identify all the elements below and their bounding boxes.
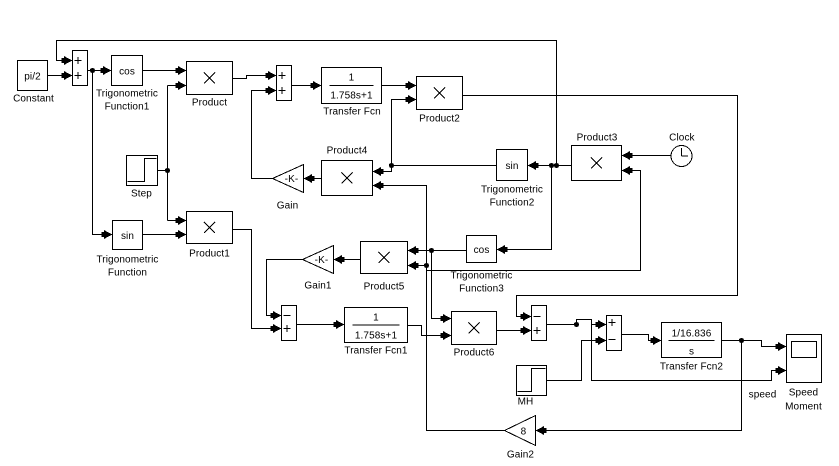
svg-text:Speed: Speed bbox=[789, 388, 818, 399]
svg-text:1: 1 bbox=[349, 73, 355, 84]
svg-text:Function2: Function2 bbox=[490, 198, 535, 209]
svg-text:Trigonometric: Trigonometric bbox=[96, 255, 158, 266]
svg-text:1: 1 bbox=[373, 313, 379, 324]
svg-text:Gain1: Gain1 bbox=[304, 281, 332, 292]
svg-text:cos: cos bbox=[119, 67, 135, 78]
svg-text:s: s bbox=[689, 347, 694, 358]
svg-text:Function1: Function1 bbox=[105, 102, 150, 113]
svg-text:Transfer Fcn2: Transfer Fcn2 bbox=[660, 362, 724, 373]
svg-text:Product3: Product3 bbox=[577, 133, 618, 144]
svg-text:Product: Product bbox=[192, 98, 227, 109]
svg-text:1.758s+1: 1.758s+1 bbox=[330, 91, 373, 102]
svg-text:Product4: Product4 bbox=[327, 146, 368, 157]
svg-text:Gain2: Gain2 bbox=[507, 450, 535, 461]
svg-text:Function: Function bbox=[108, 268, 147, 279]
svg-text:Product6: Product6 bbox=[454, 348, 495, 359]
svg-text:Function3: Function3 bbox=[459, 284, 504, 295]
svg-text:Constant: Constant bbox=[13, 94, 54, 105]
svg-text:Trigonometric: Trigonometric bbox=[481, 185, 543, 196]
svg-text:Gain: Gain bbox=[277, 201, 299, 212]
svg-text:pi/2: pi/2 bbox=[24, 72, 41, 83]
svg-text:sin: sin bbox=[505, 161, 518, 172]
svg-text:Step: Step bbox=[131, 189, 152, 200]
svg-text:Transfer Fcn1: Transfer Fcn1 bbox=[344, 346, 408, 357]
svg-text:cos: cos bbox=[474, 245, 490, 256]
svg-text:-K-: -K- bbox=[285, 174, 299, 185]
svg-text:Transfer Fcn: Transfer Fcn bbox=[323, 107, 381, 118]
svg-text:speed: speed bbox=[749, 390, 777, 401]
svg-text:8: 8 bbox=[521, 427, 527, 438]
svg-text:Product5: Product5 bbox=[364, 282, 405, 293]
svg-text:sin: sin bbox=[121, 231, 134, 242]
svg-text:Trigonometric: Trigonometric bbox=[450, 271, 512, 282]
svg-text:1.758s+1: 1.758s+1 bbox=[355, 331, 398, 342]
svg-text:Moment: Moment bbox=[785, 402, 822, 413]
svg-text:-K-: -K- bbox=[315, 255, 329, 266]
svg-text:Trigonometric: Trigonometric bbox=[96, 89, 158, 100]
svg-text:Product2: Product2 bbox=[419, 114, 460, 125]
svg-text:MH: MH bbox=[518, 397, 534, 408]
svg-text:Clock: Clock bbox=[669, 133, 695, 144]
svg-text:Product1: Product1 bbox=[189, 249, 230, 260]
svg-text:1/16.836: 1/16.836 bbox=[672, 329, 712, 340]
